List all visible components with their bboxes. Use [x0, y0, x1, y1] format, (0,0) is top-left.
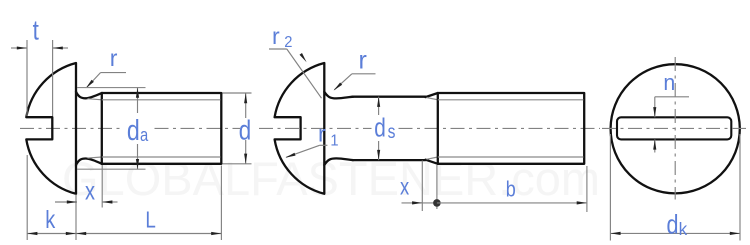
svg-text:L: L [145, 206, 156, 233]
svg-text:r: r [318, 121, 326, 147]
svg-text:x: x [400, 175, 410, 200]
svg-text:1: 1 [330, 132, 338, 149]
svg-text:n: n [663, 69, 675, 95]
svg-text:r: r [359, 46, 367, 74]
svg-text:d: d [374, 113, 386, 142]
svg-text:s: s [388, 120, 396, 142]
svg-text:d: d [127, 114, 140, 147]
svg-text:b: b [506, 178, 516, 202]
svg-text:a: a [140, 125, 149, 146]
svg-text:t: t [33, 15, 39, 46]
svg-text:d: d [667, 210, 679, 240]
svg-text:x: x [85, 177, 96, 205]
svg-text:k: k [679, 218, 688, 239]
svg-text:r: r [110, 45, 118, 71]
svg-text:r: r [272, 23, 280, 49]
svg-text:k: k [45, 206, 56, 234]
svg-text:d: d [239, 115, 251, 146]
